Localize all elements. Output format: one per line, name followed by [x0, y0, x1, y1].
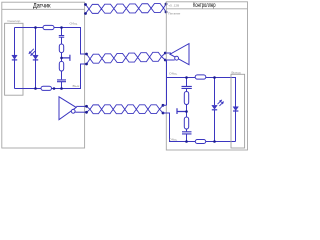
svg-text:Общ.: Общ.: [169, 72, 178, 76]
wire controller bottom rail: [163, 113, 236, 142]
node J6: [53, 87, 56, 90]
sensor box (Датчик): [2, 2, 85, 148]
svg-text:Контроллер: Контроллер: [193, 2, 216, 9]
wire controller top rail: [167, 78, 236, 142]
diode VD1: [12, 55, 17, 60]
junction dots sensor: [34, 26, 37, 29]
svg-text:Общ.: Общ.: [169, 137, 178, 141]
svg-text:Сенсор: Сенсор: [7, 19, 20, 23]
node J9: [185, 110, 188, 113]
controller box (Контроллер): [166, 2, 247, 150]
twisted pair signal: [87, 52, 166, 64]
resistor R1 top rail: [43, 25, 54, 29]
photodiode VD2 arrows: [29, 49, 36, 56]
node pair B left top: [85, 53, 88, 56]
LED HL1: [212, 105, 217, 109]
capacitor C2 plates: [57, 80, 66, 82]
diode VD3: [233, 107, 238, 111]
node pair B right top: [164, 52, 167, 55]
node pair C right top: [162, 104, 165, 107]
svg-text:Общ.: Общ.: [70, 21, 79, 25]
svg-text:+5..12В: +5..12В: [168, 3, 179, 7]
capacitor C5 side T-bar: [177, 108, 187, 114]
resistor R4 bottom rail: [41, 86, 52, 90]
svg-text:Вых: Вых: [73, 84, 81, 88]
wire controller left vertical: [163, 60, 167, 105]
svg-text:Выход: Выход: [232, 70, 241, 74]
capacitor C6 plates: [182, 132, 192, 134]
node pair A left bottom: [84, 12, 87, 15]
resistor R6 chain upper: [184, 92, 188, 105]
capacitor C4 plates: [182, 86, 192, 88]
node J4: [34, 87, 37, 90]
resistor R8 bottom rail: [195, 140, 205, 144]
wire controller chain: [186, 78, 188, 142]
controller inner box: [231, 74, 245, 148]
wire divider chain x61: [61, 28, 63, 89]
node J10: [185, 140, 188, 143]
node J11: [213, 140, 216, 143]
wire bottom rail: [15, 64, 87, 89]
node pair C left top: [85, 105, 88, 108]
wire top rail: [15, 28, 87, 55]
junction dots controller: [185, 76, 188, 79]
wire LED branch: [214, 78, 216, 142]
node J2: [60, 26, 63, 29]
wire U1 outputs: [75, 106, 86, 112]
node J8: [213, 76, 216, 79]
wire branch1 vertical: [14, 28, 16, 89]
resistor R2 chain upper: [59, 44, 63, 53]
twisted pair output: [87, 105, 164, 114]
node pair B left bottom: [85, 63, 88, 66]
node pair A right top: [165, 3, 168, 6]
svg-text:Датчик: Датчик: [33, 2, 51, 9]
node pair C left bottom: [85, 111, 88, 114]
resistor R3 chain lower: [59, 61, 63, 71]
op-amp U2 line receiver: [170, 44, 189, 65]
wire branch2 vertical: [35, 28, 37, 89]
resistor R7 chain lower: [184, 117, 188, 129]
op-amp U1 line driver: [59, 97, 76, 120]
LED HL1 arrows: [218, 100, 224, 106]
capacitor C3 side T-bar: [62, 55, 70, 61]
node J5: [60, 87, 63, 90]
node pair B right bottom: [164, 59, 167, 62]
svg-text:Питание: Питание: [168, 11, 180, 15]
capacitor C1 plates: [59, 36, 64, 38]
twisted pair power: [86, 4, 167, 14]
node pair C right bottom: [162, 112, 165, 115]
node pair A right bottom: [165, 11, 168, 14]
photodiode VD2: [33, 55, 38, 60]
node J3: [60, 57, 63, 60]
node pair A left top: [84, 3, 87, 6]
wire U2 inputs: [165, 53, 174, 60]
resistor R5 top rail: [195, 75, 206, 79]
sensor element inner box: [5, 23, 23, 95]
